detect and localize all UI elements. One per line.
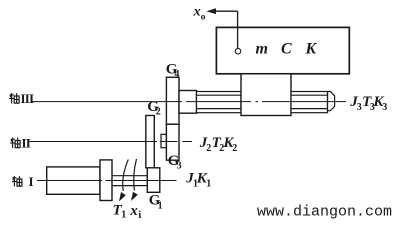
svg-text:m: m bbox=[256, 41, 268, 58]
svg-text:o: o bbox=[201, 12, 206, 22]
output arrowhead bbox=[206, 8, 216, 14]
motor flange bbox=[100, 160, 112, 201]
input arrow arc x_i bbox=[134, 159, 137, 191]
label shaft I bbox=[12, 176, 22, 186]
output arrow x_o horizontal line bbox=[209, 10, 238, 12]
gear G2 bbox=[146, 116, 155, 168]
gear G1 bbox=[147, 168, 160, 193]
svg-text:3: 3 bbox=[357, 102, 362, 113]
svg-text:3: 3 bbox=[382, 102, 387, 113]
svg-text:C: C bbox=[281, 41, 292, 58]
shaft III centerline bbox=[32, 101, 347, 103]
svg-text:www.diangon.com: www.diangon.com bbox=[257, 204, 392, 221]
shaft I lower line bbox=[112, 185, 147, 187]
label shaft III bbox=[9, 93, 19, 103]
screw end cap bbox=[328, 92, 335, 113]
torque arrow arc T1 bbox=[123, 160, 129, 192]
svg-text:2: 2 bbox=[156, 106, 161, 117]
shaft I centerline bbox=[37, 180, 177, 182]
wire vertical from arrow to pickup circle bbox=[237, 11, 239, 48]
svg-text:4: 4 bbox=[174, 69, 179, 80]
shaft II centerline bbox=[30, 141, 193, 143]
hub on shaft III bbox=[179, 91, 197, 114]
svg-text:x: x bbox=[193, 4, 201, 19]
svg-text:II: II bbox=[22, 135, 31, 150]
shaft I upper line bbox=[112, 175, 147, 177]
hub on shaft II bbox=[161, 134, 166, 147]
label shaft II bbox=[10, 138, 20, 148]
screw spline section right bbox=[291, 92, 328, 113]
svg-text:2: 2 bbox=[232, 143, 237, 154]
svg-text:i: i bbox=[138, 210, 141, 221]
svg-text:1: 1 bbox=[121, 209, 126, 220]
svg-text:K: K bbox=[305, 41, 318, 58]
pickup circle on mass bbox=[235, 48, 241, 54]
svg-text:1: 1 bbox=[158, 200, 163, 211]
svg-text:2: 2 bbox=[206, 143, 211, 154]
svg-text:I: I bbox=[29, 174, 34, 189]
nut block under mass box bbox=[241, 74, 291, 116]
gear G4 bbox=[166, 77, 179, 124]
screw spline section left bbox=[197, 92, 242, 113]
svg-text:III: III bbox=[21, 91, 35, 106]
motor body on shaft I bbox=[47, 167, 100, 194]
svg-text:1: 1 bbox=[206, 179, 211, 190]
svg-text:3: 3 bbox=[177, 161, 182, 172]
svg-text:x: x bbox=[129, 203, 138, 219]
gear G3 bbox=[166, 124, 179, 160]
mass box m C K bbox=[216, 27, 349, 73]
